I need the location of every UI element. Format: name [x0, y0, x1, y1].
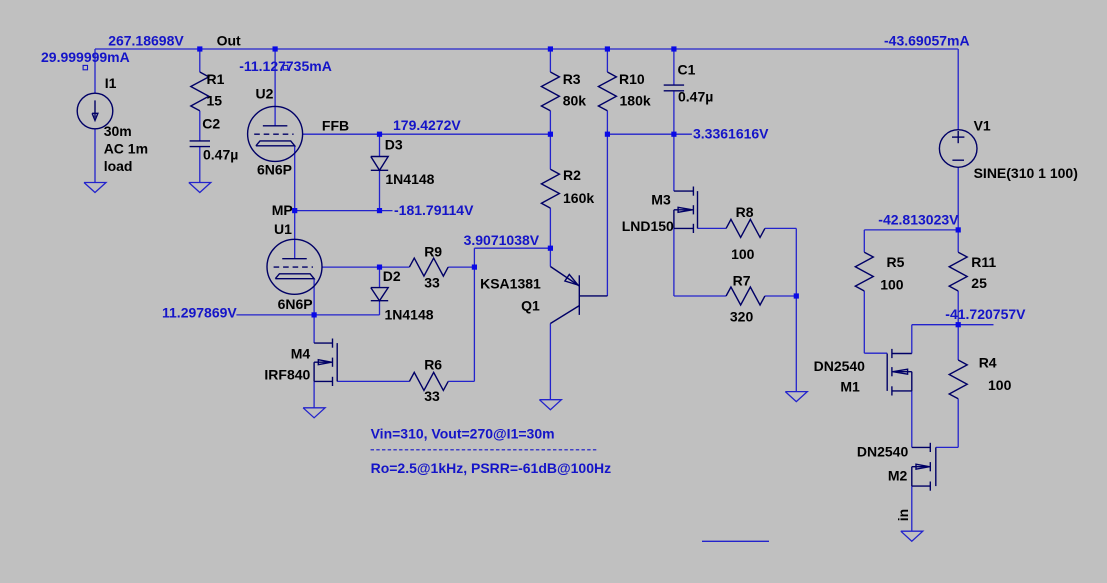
wire R2 bottom lead — [549, 208, 551, 248]
svg-text:Out: Out — [217, 33, 241, 49]
junction at 673.9,49 — [671, 46, 676, 51]
svg-text:U2: U2 — [256, 85, 274, 101]
junction at 314.1,314.9 — [312, 312, 317, 317]
junction at 275.1,49 — [273, 46, 278, 51]
svg-text:KSA1381: KSA1381 — [480, 276, 541, 292]
wire R1 to C2 — [199, 111, 201, 141]
svg-text:V1: V1 — [974, 118, 991, 134]
svg-text:R8: R8 — [736, 204, 754, 220]
svg-text:-43.69057mA: -43.69057mA — [884, 33, 970, 49]
wire M1 source to M2 drain — [911, 391, 913, 448]
wire R4 bottom lead — [957, 399, 959, 448]
wire I1 bottom lead — [94, 129, 96, 183]
wire net MP horizontal — [295, 210, 393, 212]
resistor R1 — [191, 72, 209, 111]
current source I1 — [77, 93, 113, 129]
svg-text:6N6P: 6N6P — [257, 162, 292, 178]
wire R7 right lead — [765, 295, 796, 297]
wire R4 to M2 gate — [936, 446, 958, 448]
ground under M4 — [303, 408, 325, 418]
mosfet M2 — [912, 443, 936, 491]
wire M3 drain lead — [673, 134, 675, 191]
ground under I1 — [84, 183, 106, 193]
svg-text:6N6P: 6N6P — [278, 296, 313, 312]
wire R4 top lead — [957, 325, 959, 360]
mosfet M1 (mirrored) — [887, 349, 912, 396]
wire C1 bottom lead — [673, 91, 675, 134]
wire top supply rail — [95, 48, 958, 50]
svg-text:I1: I1 — [105, 75, 117, 91]
svg-text:0.47µ: 0.47µ — [678, 89, 713, 105]
resistor R11 — [949, 252, 967, 291]
svg-text:80k: 80k — [563, 93, 587, 109]
ground under R7/R8 — [785, 392, 807, 402]
svg-text:R11: R11 — [971, 254, 996, 270]
resistor R3 — [541, 72, 559, 111]
svg-text:33: 33 — [424, 275, 440, 291]
wire U1 grid to R9 — [322, 266, 409, 268]
mosfet M4 — [314, 339, 337, 387]
wire U1 cathode lead — [313, 279, 315, 315]
wire R9 right lead — [448, 266, 474, 268]
junction at 796.3,296.0 — [794, 293, 799, 298]
wire node 3.9071038V horizontal — [474, 247, 550, 249]
junction at 550.4,49 — [548, 46, 553, 51]
svg-text:C1: C1 — [678, 62, 696, 78]
annotation marker for -11.127735mA — [283, 65, 287, 69]
wire R10 top lead — [606, 49, 608, 72]
svg-text:25: 25 — [971, 275, 987, 291]
svg-text:U1: U1 — [274, 221, 292, 237]
wire U2 plate lead — [274, 49, 276, 126]
resistor R7 — [726, 287, 765, 305]
triode U2 — [248, 106, 303, 161]
junction at 294.7,210.6 — [292, 208, 297, 213]
triode U1 — [267, 239, 322, 294]
svg-text:-42.813023V: -42.813023V — [878, 212, 959, 228]
svg-text:IRF840: IRF840 — [264, 367, 310, 383]
wire D2 anode lead — [379, 267, 381, 288]
junction at 550.4,134.2 — [548, 132, 553, 137]
svg-text:11.297869V: 11.297869V — [162, 305, 237, 321]
svg-text:267.18698V: 267.18698V — [108, 33, 184, 49]
wire M3 gate to R8 — [698, 227, 727, 229]
resistor R6 — [409, 372, 448, 390]
diode D3 — [371, 157, 388, 171]
diode D2 — [371, 288, 388, 301]
wire stray segment bottom right — [702, 540, 769, 542]
svg-text:100: 100 — [731, 246, 755, 262]
svg-text:R6: R6 — [424, 357, 442, 373]
junction at 673.9,134.2 — [671, 132, 676, 137]
wire M1 drain lead — [911, 325, 913, 354]
resistor R5 — [855, 252, 873, 291]
wire node -41.720757V horizontal — [912, 324, 994, 326]
svg-text:1N4148: 1N4148 — [385, 171, 434, 187]
svg-text:-11.127735mA: -11.127735mA — [239, 58, 332, 74]
svg-text:0.47µ: 0.47µ — [203, 147, 238, 163]
capacitor C2 — [190, 141, 210, 147]
svg-text:M4: M4 — [291, 345, 311, 361]
svg-text:-41.720757V: -41.720757V — [945, 306, 1026, 322]
wire net in / M2 source to ground — [911, 486, 913, 531]
ground under C2 — [189, 183, 211, 193]
svg-text:Q1: Q1 — [521, 298, 540, 314]
svg-text:R7: R7 — [733, 273, 751, 289]
wire V1 bottom lead — [957, 167, 959, 230]
svg-text:30m: 30m — [104, 123, 132, 139]
wire U1 plate lead — [294, 211, 296, 259]
capacitor C1 — [664, 85, 684, 91]
svg-text:load: load — [104, 158, 133, 174]
svg-text:D3: D3 — [385, 137, 403, 153]
wire R8 drop to R7 — [795, 228, 797, 296]
resistor R4 — [949, 360, 967, 399]
svg-text:in: in — [895, 509, 911, 521]
svg-text:320: 320 — [730, 309, 754, 325]
wire I1 top lead — [94, 49, 96, 93]
svg-text:-181.79114V: -181.79114V — [394, 202, 474, 218]
svg-text:3.3361616V: 3.3361616V — [693, 125, 769, 141]
junction at 550.4,248.2 — [548, 246, 553, 251]
svg-text:100: 100 — [880, 276, 904, 292]
svg-text:29.999999mA: 29.999999mA — [41, 49, 130, 65]
wire R7/R8 to ground — [795, 296, 797, 392]
svg-text:1N4148: 1N4148 — [385, 307, 434, 323]
wire M4 source to ground — [313, 381, 315, 407]
junction at 379.5,210.6 — [377, 208, 382, 213]
wire M3 source lead — [673, 228, 675, 296]
svg-text:180k: 180k — [620, 93, 651, 109]
svg-text:Ro=2.5@1kHz, PSRR=-61dB@100Hz: Ro=2.5@1kHz, PSRR=-61dB@100Hz — [371, 460, 612, 476]
svg-text:160k: 160k — [563, 190, 594, 206]
wire R5 to M1 gate corner — [863, 291, 865, 353]
transistor Q1 (PNP KSA1381) — [550, 267, 607, 324]
svg-text:D2: D2 — [383, 268, 401, 284]
junction at 199.8,49 — [197, 46, 202, 51]
wire D3 anode lead — [379, 134, 381, 156]
voltage source V1 — [939, 130, 977, 168]
svg-text:FFB: FFB — [322, 118, 349, 134]
wire M1 gate lead — [864, 352, 887, 354]
mosfet M3 — [674, 187, 698, 234]
wire node 11.297869V horizontal — [236, 314, 379, 316]
svg-text:R3: R3 — [563, 71, 581, 87]
svg-text:Vin=310, Vout=270@I1=30m: Vin=310, Vout=270@I1=30m — [371, 426, 555, 442]
wire D2 cathode lead — [379, 301, 381, 315]
junction at 607.4,49 — [605, 46, 610, 51]
annotation marker for 29.999999mA — [83, 65, 87, 69]
junction at 379.5,267.1 — [377, 265, 382, 270]
svg-text:C2: C2 — [202, 116, 220, 132]
resistor R9 — [409, 258, 448, 276]
wire D3 cathode lead — [379, 170, 381, 210]
junction at 474.4,267.1 — [472, 265, 477, 270]
ground under Q1 — [539, 400, 561, 410]
wire R11 bottom lead — [957, 291, 959, 325]
svg-text:SINE(310 1 100): SINE(310 1 100) — [974, 165, 1078, 181]
svg-text:100: 100 — [988, 377, 1012, 393]
wire Q1 collector to ground — [549, 324, 551, 400]
svg-text:3.9071038V: 3.9071038V — [464, 232, 540, 248]
wire M4 drain lead — [313, 315, 315, 343]
junction at 379.5,134.2 — [377, 132, 382, 137]
wire node 3.3361616V horizontal — [607, 133, 692, 135]
wire R8 right lead — [765, 227, 796, 229]
ground under M2 — [901, 531, 923, 541]
resistor R8 — [726, 219, 765, 237]
wire R2 top lead — [549, 134, 551, 169]
svg-text:AC 1m: AC 1m — [104, 141, 148, 157]
wire U2 cathode lead — [294, 146, 296, 211]
comment dashed separator — [371, 449, 597, 451]
junction at 958.2,229.9 — [956, 227, 961, 232]
svg-text:M2: M2 — [888, 468, 908, 484]
wire R3 top lead — [549, 49, 551, 72]
resistor R10 — [598, 72, 616, 111]
wire C2 bottom lead — [199, 147, 201, 183]
wire R5 top lead — [863, 230, 865, 252]
wire R6 right lead — [448, 380, 474, 382]
junction at 958.2,324.7 — [956, 322, 961, 327]
svg-text:DN2540: DN2540 — [814, 358, 866, 374]
svg-text:LND150: LND150 — [622, 218, 674, 234]
svg-text:DN2540: DN2540 — [857, 443, 909, 459]
svg-text:R9: R9 — [424, 243, 442, 259]
svg-text:R1: R1 — [207, 71, 225, 87]
wire R10 to Q1 base — [606, 111, 608, 296]
wire M3 source to R7 — [674, 295, 726, 297]
svg-text:R4: R4 — [979, 355, 997, 371]
svg-text:R2: R2 — [563, 167, 581, 183]
wire R1 top lead — [199, 49, 201, 72]
svg-text:R10: R10 — [619, 71, 645, 87]
wire R11 top lead — [957, 230, 959, 252]
wire M4 gate to R6 — [337, 380, 409, 382]
svg-text:33: 33 — [424, 388, 440, 404]
svg-text:M1: M1 — [840, 379, 860, 395]
svg-text:M3: M3 — [651, 192, 671, 208]
resistor R2 — [541, 169, 559, 208]
wire net FFB horizontal — [303, 133, 551, 135]
wire C1 top lead — [673, 49, 675, 85]
svg-text:15: 15 — [207, 93, 223, 109]
wire Q1 emitter lead — [549, 248, 551, 266]
wire riser R9/R6 to node 3.9071038V — [473, 248, 475, 381]
svg-text:R5: R5 — [887, 254, 905, 270]
wire V1 top lead — [957, 49, 959, 130]
wire R3 bottom lead — [549, 111, 551, 134]
wire node -42.813023V horizontal — [864, 229, 958, 231]
junction at 607.4,134.2 — [605, 132, 610, 137]
svg-text:179.4272V: 179.4272V — [393, 117, 461, 133]
svg-text:MP: MP — [272, 202, 293, 218]
